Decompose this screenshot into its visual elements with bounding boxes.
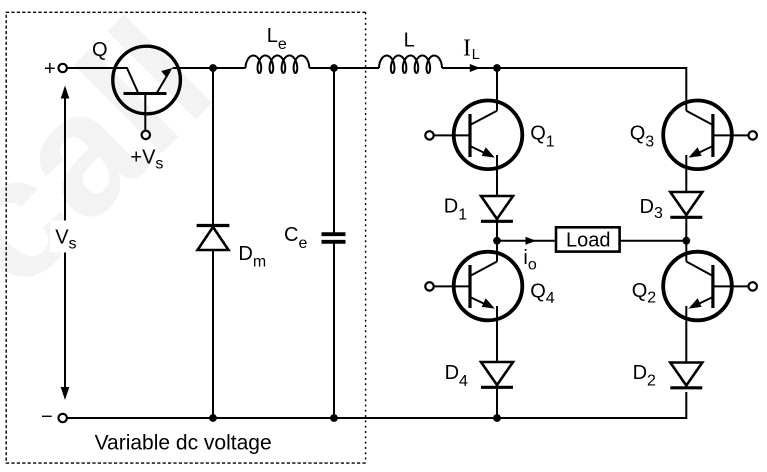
svg-text:D3: D3 (640, 196, 663, 222)
svg-text:Load: Load (566, 229, 611, 251)
junction dot top rail after Le (330, 64, 338, 72)
dotted divider line (365, 12, 367, 463)
wire bottom rail (67, 392, 687, 418)
node - terminal (59, 414, 67, 422)
svg-text:io: io (523, 247, 536, 274)
capacitor Ce (322, 234, 346, 242)
svg-text:Q3: Q3 (630, 123, 655, 151)
transistor Q1 (425, 101, 522, 170)
wire D3 to right mid node (685, 217, 687, 241)
Load box (556, 227, 620, 251)
arrow i_o to load (526, 237, 537, 245)
junction dot mid rail right (682, 237, 690, 245)
wire Dm top leg (212, 68, 214, 225)
svg-text:I: I (463, 35, 471, 61)
Vs arrowhead down (61, 387, 70, 400)
svg-text:L: L (404, 30, 415, 52)
diode D4 (481, 362, 513, 387)
wire L to Q1 top, corner, down to Q3 (442, 68, 686, 111)
junction dot bottom rail at Dm (209, 414, 217, 422)
transistor Q4 (425, 252, 522, 321)
svg-text:Q2: Q2 (632, 280, 657, 306)
inductor Le (246, 56, 310, 74)
svg-text:Variable dc voltage: Variable dc voltage (95, 432, 272, 455)
svg-text:Q1: Q1 (530, 123, 555, 151)
diode D1 (481, 196, 513, 221)
node Vs measure line (64, 92, 66, 394)
transistor Q chopper (113, 46, 181, 139)
inductor L (379, 56, 442, 74)
junction dot top rail at Q1 (493, 64, 501, 72)
diode D3 (670, 192, 702, 217)
wire Q1 collector (496, 68, 498, 111)
dashed box: variable dc voltage section (6, 12, 365, 463)
svg-text:L: L (472, 47, 480, 63)
transistor Q2 (663, 252, 757, 321)
junction dot bottom rail at D4 (493, 414, 501, 422)
wire Q4 collector (496, 241, 498, 262)
svg-text:−: − (41, 406, 53, 428)
wire Q4 emitter to D4 (496, 306, 498, 362)
wire Load to right mid node (621, 240, 686, 242)
svg-text:Q4: Q4 (530, 280, 555, 306)
wire Q3 emitter to D3 (685, 155, 687, 192)
wire Q2 emitter to D2 (685, 306, 687, 363)
svg-text:Q: Q (92, 39, 108, 61)
wire mid node to Load (497, 240, 555, 242)
wire top rail Q to Le (173, 67, 246, 69)
node + terminal (59, 64, 67, 72)
wire Ce bottom leg (333, 243, 335, 418)
wire Ce top leg (333, 68, 335, 233)
arrow I_L on top rail (470, 64, 481, 72)
Vs arrowhead up (61, 86, 70, 99)
transistor Q3 (663, 101, 757, 170)
svg-text:+: + (44, 58, 56, 80)
wire top rail left (67, 67, 113, 69)
wire Q1 emitter to D1 (496, 155, 498, 196)
wire Q2 collector (685, 241, 687, 262)
wire Le to L (309, 67, 379, 69)
diode D2 (670, 363, 702, 388)
svg-text:D2: D2 (633, 362, 656, 390)
svg-text:Le: Le (267, 25, 287, 53)
wire D4 to bottom rail (496, 387, 498, 418)
junction dot mid rail left (493, 237, 501, 245)
svg-text:Dm: Dm (238, 243, 266, 271)
diode Dm (197, 226, 230, 251)
svg-text:call: call (0, 0, 247, 323)
svg-text:Ce: Ce (284, 224, 307, 252)
label Vs (50, 221, 80, 253)
svg-text:D1: D1 (444, 196, 467, 224)
wire D1 to mid node (496, 221, 498, 241)
svg-text:D4: D4 (445, 362, 468, 390)
junction dot top rail after Q (209, 64, 217, 72)
wire Dm bottom leg (212, 250, 214, 418)
junction dot bottom rail at Ce (330, 414, 338, 422)
